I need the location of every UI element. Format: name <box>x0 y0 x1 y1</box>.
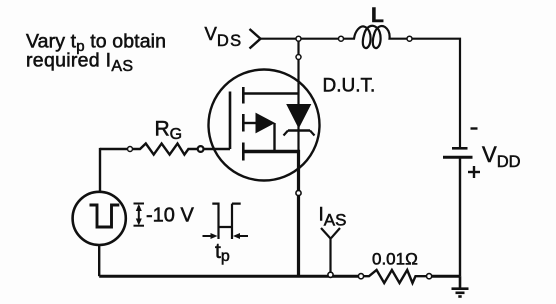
IAS probe arrow <box>321 228 340 274</box>
mosfet gate bar <box>229 92 232 150</box>
node circle IAS on bottom rail <box>328 272 333 277</box>
wire drain vertical <box>297 42 299 152</box>
dimension arrow -10V <box>134 204 145 226</box>
pulse generator waveform <box>90 205 120 227</box>
mosfet drain lead horizontal <box>243 92 298 94</box>
body diode (zener) <box>284 105 315 136</box>
resistor RG zigzag <box>133 144 198 155</box>
wire right side battery to ground corner <box>459 157 461 276</box>
D.U.T. circle <box>209 70 320 181</box>
pulse generator circle <box>73 192 126 245</box>
mosfet source bar thick <box>243 150 300 153</box>
wire pulse generator to bottom rail <box>98 245 100 276</box>
svg-text:0.01Ω: 0.01Ω <box>372 250 418 269</box>
node junction circle on top rail at drain <box>296 36 301 41</box>
tp dimension arrows <box>203 233 249 239</box>
resistor 0.01 ohm zigzag <box>364 270 427 283</box>
node circle on drain lead <box>296 55 301 60</box>
node circle left of shunt resistor <box>358 274 363 279</box>
label plus <box>468 166 480 178</box>
label minus <box>471 127 478 129</box>
inductor L coil <box>344 26 407 48</box>
svg-text:-10 V: -10 V <box>146 205 194 227</box>
svg-text:D.U.T.: D.U.T. <box>323 76 376 97</box>
wire gate row left corner to resistor <box>100 148 127 150</box>
node circle right of inductor <box>407 36 412 41</box>
node circle on source vertical <box>296 190 301 195</box>
wire resistor to gate <box>204 148 231 150</box>
ground <box>452 276 469 296</box>
svg-text:L: L <box>371 4 384 27</box>
wire shunt to ground corner <box>432 275 460 278</box>
node VDS label <box>205 23 261 50</box>
battery VDD <box>443 148 473 157</box>
mosfet channel dashes <box>242 87 245 161</box>
node circle left of RG <box>128 147 133 152</box>
node circle right of RG <box>198 146 204 152</box>
note text "Vary tp to obtain required IAS" <box>26 31 166 76</box>
tp pulse waveform <box>212 204 240 239</box>
node circle right of shunt resistor <box>427 274 432 279</box>
wire source vertical thick to bottom rail <box>297 150 300 276</box>
mosfet body arrow <box>243 114 274 152</box>
wire top rail inductor to right corner and down <box>412 39 460 147</box>
wire top rail from VDS to inductor <box>261 38 342 40</box>
wire bottom rail <box>99 275 358 278</box>
wire left column down to pulse generator <box>99 148 101 192</box>
node circle left of inductor <box>339 36 344 41</box>
